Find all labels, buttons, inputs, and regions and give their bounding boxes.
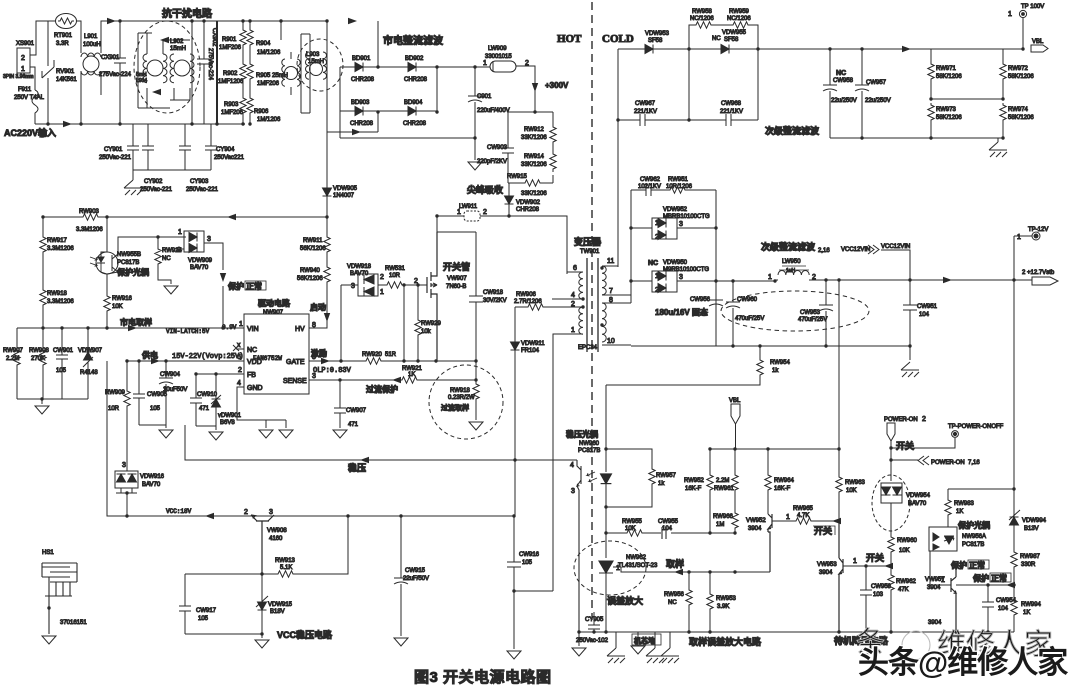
svg-text:3: 3 bbox=[122, 462, 126, 469]
svg-text:RV901: RV901 bbox=[56, 69, 75, 75]
zener VDW915 bbox=[261, 574, 263, 602]
svg-text:RW959: RW959 bbox=[729, 9, 750, 15]
svg-text:2: 2 bbox=[655, 287, 659, 294]
svg-text:RW958: RW958 bbox=[692, 9, 713, 15]
svg-text:RW955: RW955 bbox=[622, 519, 643, 525]
dashed ellipse output caps bbox=[721, 291, 869, 331]
svg-text:1K: 1K bbox=[408, 372, 415, 378]
connector POWER-ON 7,16 bbox=[891, 459, 918, 461]
svg-text:8: 8 bbox=[609, 297, 613, 304]
svg-text:NW956A: NW956A bbox=[962, 534, 986, 540]
svg-text:1K: 1K bbox=[1023, 610, 1030, 616]
svg-text:次级整流滤波: 次级整流滤波 bbox=[761, 241, 816, 252]
svg-text:VIN-LATCH:5V: VIN-LATCH:5V bbox=[166, 328, 210, 335]
transistor VW957 bbox=[951, 566, 956, 632]
svg-text:RW918: RW918 bbox=[450, 388, 471, 394]
svg-text:CY903: CY903 bbox=[190, 179, 209, 185]
transistor VW952 bbox=[768, 514, 772, 572]
svg-text:1: 1 bbox=[239, 321, 243, 328]
svg-text:正常: 正常 bbox=[969, 560, 985, 570]
resistor RW531 bbox=[378, 284, 385, 286]
svg-text:CY905: CY905 bbox=[585, 617, 604, 623]
svg-text:开关: 开关 bbox=[896, 440, 914, 451]
svg-text:RW914: RW914 bbox=[524, 154, 545, 160]
protection top wire bbox=[948, 488, 1014, 490]
svg-text:16K-F: 16K-F bbox=[685, 486, 702, 492]
svg-text:1: 1 bbox=[655, 273, 659, 280]
svg-text:BD904: BD904 bbox=[404, 100, 423, 106]
resistor RW973 bbox=[928, 103, 934, 123]
svg-text:开关: 开关 bbox=[866, 552, 884, 563]
svg-text:保护光耦: 保护光耦 bbox=[116, 267, 149, 277]
svg-text:1: 1 bbox=[768, 274, 772, 281]
svg-text:头条@维修人家: 头条@维修人家 bbox=[858, 645, 1068, 680]
choke L902 bbox=[174, 60, 190, 76]
MOSFET VW907 bbox=[427, 232, 437, 361]
capacitor CW956 solid bbox=[709, 300, 723, 346]
svg-text:RW952: RW952 bbox=[684, 478, 705, 484]
svg-text:1: 1 bbox=[655, 220, 659, 227]
svg-text:CY902: CY902 bbox=[144, 179, 163, 185]
svg-text:VW953: VW953 bbox=[817, 562, 837, 568]
svg-text:105: 105 bbox=[522, 560, 533, 566]
primary winding 2-1 bbox=[579, 307, 583, 334]
svg-text:105: 105 bbox=[198, 616, 209, 622]
svg-text:图3 开关电源电路图: 图3 开关电源电路图 bbox=[414, 668, 552, 686]
svg-text:33001015: 33001015 bbox=[485, 54, 512, 60]
capacitor CW953 bbox=[819, 280, 833, 346]
svg-text:10K: 10K bbox=[625, 526, 636, 532]
IC NW907 FAN6752W bbox=[244, 314, 309, 394]
svg-text:100uH: 100uH bbox=[83, 42, 101, 48]
resistor RW952 bbox=[709, 449, 711, 473]
svg-text:开关: 开关 bbox=[814, 525, 832, 536]
dual diode VDW954 in dashed ellipse bbox=[872, 475, 910, 531]
svg-text:VDW994: VDW994 bbox=[1022, 518, 1047, 524]
svg-text:NC: NC bbox=[668, 600, 677, 606]
capacitor CW951 bbox=[903, 280, 917, 360]
bottom bus bbox=[35, 123, 245, 125]
snubber box RW912/RW914/RW915 bbox=[508, 112, 553, 183]
svg-text:NW955B: NW955B bbox=[117, 252, 141, 258]
svg-text:EPC34: EPC34 bbox=[578, 345, 598, 351]
svg-text:VDW955: VDW955 bbox=[722, 30, 747, 36]
svg-text:2: 2 bbox=[483, 209, 487, 216]
svg-text:104: 104 bbox=[662, 526, 673, 532]
svg-text:1: 1 bbox=[178, 229, 182, 236]
resistor RW914 bbox=[552, 145, 554, 152]
svg-text:VW908: VW908 bbox=[267, 528, 287, 534]
svg-text:POWER-ON: POWER-ON bbox=[931, 460, 965, 466]
FB network line bbox=[196, 374, 244, 399]
svg-text:RW903: RW903 bbox=[79, 209, 100, 215]
connector XS901 bbox=[17, 21, 56, 90]
svg-text:2: 2 bbox=[922, 416, 926, 423]
capacitor CW910 bbox=[190, 398, 202, 426]
svg-text:激励: 激励 bbox=[311, 348, 327, 358]
diode BD903 bbox=[355, 107, 363, 116]
svg-text:105: 105 bbox=[150, 406, 161, 412]
svg-text:3: 3 bbox=[679, 221, 683, 228]
ground bbox=[468, 162, 482, 170]
svg-text:NC: NC bbox=[712, 36, 721, 42]
svg-text:180u/16V 固态: 180u/16V 固态 bbox=[655, 307, 708, 317]
svg-text:变压器: 变压器 bbox=[574, 236, 602, 247]
svg-text:正常: 正常 bbox=[991, 573, 1007, 583]
svg-text:RT901: RT901 bbox=[54, 33, 73, 39]
varistor RV901 bbox=[42, 21, 54, 124]
svg-text:R903: R903 bbox=[224, 102, 239, 108]
svg-text:PC817B: PC817B bbox=[962, 542, 984, 548]
svg-text:RW913: RW913 bbox=[275, 558, 296, 564]
svg-text:保护: 保护 bbox=[950, 560, 967, 570]
svg-text:RW962: RW962 bbox=[896, 579, 917, 585]
capacitor CW918 bbox=[469, 232, 483, 361]
svg-text:1MF206: 1MF206 bbox=[219, 45, 242, 51]
svg-text:VDW905: VDW905 bbox=[333, 186, 358, 192]
GND pin wires bbox=[237, 387, 286, 428]
svg-text:CX901: CX901 bbox=[101, 55, 120, 61]
svg-text:开关管: 开关管 bbox=[443, 261, 470, 272]
chassis grounds bbox=[615, 632, 617, 648]
svg-text:CHR208: CHR208 bbox=[516, 207, 540, 213]
svg-text:CW901: CW901 bbox=[53, 348, 74, 354]
svg-text:3904: 3904 bbox=[748, 526, 762, 532]
diode VDW902 bbox=[508, 183, 510, 196]
svg-text:VCC12VIN: VCC12VIN bbox=[881, 244, 910, 250]
svg-text:市电取样: 市电取样 bbox=[120, 317, 152, 327]
watermark ghost bbox=[856, 626, 1053, 661]
svg-text:CW951: CW951 bbox=[917, 304, 938, 310]
svg-text:VBL: VBL bbox=[729, 398, 741, 404]
svg-text:CHR208: CHR208 bbox=[351, 77, 375, 83]
resistor RW960 bbox=[888, 535, 894, 555]
svg-text:CW957: CW957 bbox=[866, 80, 887, 86]
resistor RW966 bbox=[732, 511, 738, 531]
svg-text:vDW901: vDW901 bbox=[218, 413, 242, 419]
svg-text:1M/1206: 1M/1206 bbox=[257, 50, 281, 56]
svg-text:VDW902: VDW902 bbox=[516, 200, 541, 206]
svg-text:1: 1 bbox=[941, 577, 945, 584]
svg-text:稳压光耦: 稳压光耦 bbox=[566, 429, 598, 439]
resistor RW921 bbox=[400, 377, 420, 383]
svg-text:104: 104 bbox=[919, 312, 930, 318]
protect normal label 2 + wire bbox=[956, 584, 1014, 586]
secondary winding 11-7 bbox=[602, 266, 606, 295]
svg-text:R906: R906 bbox=[254, 109, 269, 115]
svg-text:L903: L903 bbox=[306, 52, 320, 58]
resistors RW958 RW959 NC loop bbox=[689, 25, 758, 49]
svg-text:1: 1 bbox=[571, 327, 575, 334]
svg-text:471: 471 bbox=[199, 406, 210, 412]
svg-text:GND: GND bbox=[247, 385, 263, 392]
svg-text:NW962: NW962 bbox=[626, 555, 647, 561]
svg-text:1K: 1K bbox=[956, 509, 963, 515]
resistor RW987 bbox=[1011, 550, 1017, 570]
svg-text:30V/2KV: 30V/2KV bbox=[483, 298, 507, 304]
connector VBL out bbox=[1031, 45, 1048, 52]
svg-text:VDW909: VDW909 bbox=[188, 258, 213, 264]
resistor R906 bbox=[249, 82, 251, 96]
svg-text:SENSE: SENSE bbox=[283, 378, 307, 385]
opto LED bbox=[605, 449, 607, 472]
svg-text:22u/250V: 22u/250V bbox=[831, 98, 857, 104]
svg-text:CW915: CW915 bbox=[405, 568, 426, 574]
wires inside ellipse bbox=[138, 33, 190, 108]
svg-text:NC/1206: NC/1206 bbox=[690, 16, 714, 22]
svg-text:RW974: RW974 bbox=[1008, 107, 1029, 113]
svg-text:3.3M1206: 3.3M1206 bbox=[47, 246, 74, 252]
svg-text:275Vac-224: 275Vac-224 bbox=[207, 48, 213, 81]
wire top bus bbox=[76, 21, 327, 53]
svg-text:VW952: VW952 bbox=[746, 518, 766, 524]
svg-text:BD901: BD901 bbox=[352, 56, 371, 62]
svg-text:R901: R901 bbox=[222, 37, 237, 43]
choke L905 bbox=[285, 67, 298, 80]
test point TP-100V bbox=[1022, 18, 1024, 49]
svg-text:14K561: 14K561 bbox=[56, 77, 77, 83]
power-on row wire bbox=[710, 448, 839, 450]
svg-text:3: 3 bbox=[207, 236, 211, 243]
svg-text:CX902: CX902 bbox=[211, 28, 217, 47]
dashed ellipse EMI chokes bbox=[134, 21, 200, 113]
svg-text:NC: NC bbox=[247, 347, 257, 354]
diode VDW905 bbox=[323, 188, 332, 196]
resistor RW907 bbox=[16, 328, 18, 348]
svg-text:RW920: RW920 bbox=[362, 352, 383, 358]
optocoupler NW955B bbox=[96, 252, 118, 274]
svg-text:220uF/400V: 220uF/400V bbox=[477, 108, 510, 114]
capacitor CW915 bbox=[394, 516, 408, 636]
capacitor CW907 bbox=[334, 380, 346, 428]
svg-text:3.3R: 3.3R bbox=[56, 41, 69, 47]
resistor RW912 bbox=[550, 125, 556, 145]
svg-text:RW964: RW964 bbox=[774, 478, 795, 484]
resistor RW964 bbox=[767, 449, 769, 473]
svg-text:4: 4 bbox=[571, 292, 575, 299]
svg-text:4.7K: 4.7K bbox=[797, 513, 809, 519]
svg-text:56K/1206: 56K/1206 bbox=[297, 276, 323, 282]
svg-text:5.1K: 5.1K bbox=[280, 565, 292, 571]
svg-text:RW956: RW956 bbox=[664, 592, 685, 598]
svg-text:NC: NC bbox=[836, 70, 846, 77]
snubber CW962 RW951 bbox=[631, 184, 716, 196]
svg-text:B18V: B18V bbox=[270, 609, 285, 615]
svg-text:1k: 1k bbox=[772, 368, 779, 374]
svg-text:HOT: HOT bbox=[557, 33, 582, 45]
svg-text:7N60-B: 7N60-B bbox=[446, 284, 466, 290]
svg-text:CHR208: CHR208 bbox=[404, 77, 428, 83]
svg-text:RW963: RW963 bbox=[845, 480, 866, 486]
svg-text:正常: 正常 bbox=[246, 281, 262, 291]
svg-text:驱动电路: 驱动电路 bbox=[258, 298, 291, 308]
capacitor CW958b bbox=[860, 566, 872, 632]
VDD supply line bbox=[127, 360, 244, 362]
svg-text:L901: L901 bbox=[84, 34, 98, 40]
svg-text:RW918: RW918 bbox=[47, 291, 68, 297]
diode VDW907 bbox=[87, 328, 89, 352]
resistor RW906 bbox=[526, 304, 546, 310]
svg-text:NC: NC bbox=[162, 256, 171, 262]
svg-text:VDW907: VDW907 bbox=[78, 348, 103, 354]
svg-text:CW968: CW968 bbox=[721, 101, 742, 107]
svg-text:CW962: CW962 bbox=[640, 177, 661, 183]
Y-caps CY901 CY902 CY903 CY904 bbox=[127, 124, 139, 170]
resistor RW915 bbox=[523, 180, 543, 186]
transistor VW908 bbox=[251, 515, 274, 574]
svg-text:2: 2 bbox=[21, 55, 25, 62]
svg-text:BAV70: BAV70 bbox=[350, 271, 369, 277]
svg-text:次级整流滤波: 次级整流滤波 bbox=[765, 125, 820, 136]
svg-text:CW916: CW916 bbox=[519, 552, 540, 558]
svg-text:2: 2 bbox=[414, 278, 418, 285]
svg-text:1: 1 bbox=[21, 66, 25, 73]
svg-text:B13V: B13V bbox=[1024, 526, 1039, 532]
bottom rail bbox=[830, 138, 1003, 142]
svg-text:抗干扰电路: 抗干扰电路 bbox=[162, 7, 213, 20]
svg-text:56K/1206: 56K/1206 bbox=[300, 246, 326, 252]
svg-text:RW987: RW987 bbox=[1020, 554, 1041, 560]
resistor RW924 NC bbox=[155, 247, 161, 267]
svg-text:RW911: RW911 bbox=[303, 238, 323, 244]
svg-text:10k: 10k bbox=[421, 329, 432, 335]
svg-text:1k: 1k bbox=[658, 481, 665, 487]
svg-text:6: 6 bbox=[573, 265, 577, 272]
svg-text:R4148: R4148 bbox=[80, 370, 98, 376]
svg-text:0.9V: 0.9V bbox=[222, 324, 237, 331]
svg-text:330R: 330R bbox=[1021, 562, 1036, 568]
svg-text:C901: C901 bbox=[477, 94, 492, 100]
svg-text:2: 2 bbox=[655, 234, 659, 241]
svg-text:1: 1 bbox=[786, 514, 790, 521]
resistor RW903 bbox=[81, 214, 101, 220]
svg-text:稳压: 稳压 bbox=[348, 462, 366, 473]
svg-text:误差放大: 误差放大 bbox=[607, 595, 643, 606]
svg-text:GATE: GATE bbox=[286, 359, 305, 366]
resistor R905 bbox=[249, 48, 251, 62]
svg-text:VCC稳压电路: VCC稳压电路 bbox=[277, 629, 333, 640]
mains sampling line bbox=[17, 327, 244, 329]
svg-text:RW951: RW951 bbox=[668, 177, 689, 183]
capacitor CW905 bbox=[133, 361, 145, 425]
svg-text:保护: 保护 bbox=[972, 573, 989, 583]
resistor RW971 bbox=[930, 49, 932, 62]
svg-text:470uF/25V: 470uF/25V bbox=[735, 316, 764, 322]
svg-text:TP-POWER-ONOFF: TP-POWER-ONOFF bbox=[948, 424, 1004, 430]
svg-text:NC/1206: NC/1206 bbox=[727, 16, 751, 22]
svg-text:10uF50V: 10uF50V bbox=[163, 387, 187, 393]
resistor RW956 bbox=[688, 572, 690, 588]
svg-text:FR104: FR104 bbox=[521, 348, 540, 354]
svg-text:1M: 1M bbox=[716, 522, 724, 528]
resistor RW913 bbox=[185, 573, 276, 575]
svg-text:POWER-ON: POWER-ON bbox=[884, 417, 918, 423]
svg-text:471: 471 bbox=[348, 422, 359, 428]
svg-text:3: 3 bbox=[351, 283, 355, 290]
svg-text:CW918: CW918 bbox=[483, 290, 504, 296]
bead LW911 bbox=[437, 215, 464, 217]
svg-text:LW911: LW911 bbox=[459, 204, 478, 210]
VCC12VIN connector bbox=[868, 245, 879, 254]
wire opto collector to VDW909 bbox=[118, 237, 186, 255]
svg-text:270K: 270K bbox=[31, 356, 45, 362]
svg-text:R905 25mH: R905 25mH bbox=[256, 73, 288, 79]
svg-text:2,16: 2,16 bbox=[818, 248, 830, 254]
svg-text:RW983: RW983 bbox=[954, 501, 975, 507]
fuse F911 bbox=[32, 90, 38, 124]
svg-text:CW903: CW903 bbox=[487, 145, 508, 151]
svg-text:104: 104 bbox=[998, 606, 1009, 612]
svg-text:R904: R904 bbox=[256, 41, 271, 47]
svg-text:10R/1206: 10R/1206 bbox=[666, 184, 693, 190]
svg-text:VIN: VIN bbox=[247, 326, 259, 333]
svg-text:3904: 3904 bbox=[927, 585, 941, 591]
svg-text:250Vac-221: 250Vac-221 bbox=[140, 187, 173, 193]
svg-text:2: 2 bbox=[380, 274, 384, 281]
capacitor CW957 bbox=[855, 49, 869, 138]
svg-text:1: 1 bbox=[380, 289, 384, 296]
svg-text:TP 100V: TP 100V bbox=[1021, 4, 1044, 10]
svg-text:F911: F911 bbox=[18, 87, 32, 93]
gate line bbox=[309, 360, 477, 362]
resistor RW962 bbox=[890, 566, 892, 573]
svg-text:LW909: LW909 bbox=[488, 46, 507, 52]
svg-text:HV: HV bbox=[295, 326, 305, 333]
resistor R902 bbox=[242, 48, 244, 62]
svg-text:RW953: RW953 bbox=[716, 596, 737, 602]
svg-text:CW904: CW904 bbox=[160, 372, 181, 378]
svg-text:RW960: RW960 bbox=[897, 538, 918, 544]
svg-text:22uF/50V: 22uF/50V bbox=[403, 576, 429, 582]
svg-text:7: 7 bbox=[609, 288, 613, 295]
svg-text:TL431/SOT-23: TL431/SOT-23 bbox=[618, 563, 658, 569]
sense line bbox=[309, 379, 476, 381]
resistor RW918b bbox=[475, 361, 477, 382]
capacitor CY905 bbox=[588, 612, 600, 632]
svg-text:MBRB10100CTG: MBRB10100CTG bbox=[663, 214, 710, 220]
current sense dashed circle bbox=[429, 365, 503, 439]
svg-text:3.3M1206: 3.3M1206 bbox=[76, 227, 103, 233]
svg-text:VDW918: VDW918 bbox=[347, 264, 372, 270]
primary winding 6-4 bbox=[579, 272, 583, 299]
dual diode VDW916 bbox=[126, 469, 128, 471]
svg-text:15mH: 15mH bbox=[308, 59, 324, 65]
svg-text:15V-22V(Vovp:25V): 15V-22V(Vovp:25V) bbox=[172, 353, 243, 361]
svg-text:尖峰吸收: 尖峰吸收 bbox=[467, 184, 503, 195]
resistor RW974 bbox=[1000, 103, 1006, 123]
capacitor CW967 bbox=[618, 49, 689, 126]
bottom wire + ground bbox=[17, 399, 88, 404]
NC pin stub bbox=[233, 345, 244, 351]
zener VDW901 bbox=[212, 399, 221, 407]
svg-text:BD902: BD902 bbox=[405, 56, 424, 62]
svg-text:FAN6752W: FAN6752W bbox=[253, 355, 282, 362]
svg-text:10K: 10K bbox=[899, 548, 910, 554]
svg-text:VDW915: VDW915 bbox=[268, 602, 293, 608]
resistor RW929 bbox=[415, 318, 421, 338]
svg-text:7,16: 7,16 bbox=[968, 460, 980, 466]
svg-text:CW967: CW967 bbox=[635, 101, 656, 107]
svg-text:10: 10 bbox=[607, 338, 615, 345]
svg-text:2: 2 bbox=[238, 367, 242, 374]
svg-text:51R: 51R bbox=[385, 352, 397, 358]
svg-text:VDW952: VDW952 bbox=[663, 207, 688, 213]
svg-text:15mH: 15mH bbox=[170, 46, 186, 52]
svg-text:16K-F: 16K-F bbox=[774, 486, 791, 492]
svg-text:3PIN 3.96mm: 3PIN 3.96mm bbox=[3, 74, 34, 80]
svg-text:PC817B: PC817B bbox=[578, 448, 600, 454]
svg-text:SF58: SF58 bbox=[724, 37, 739, 43]
